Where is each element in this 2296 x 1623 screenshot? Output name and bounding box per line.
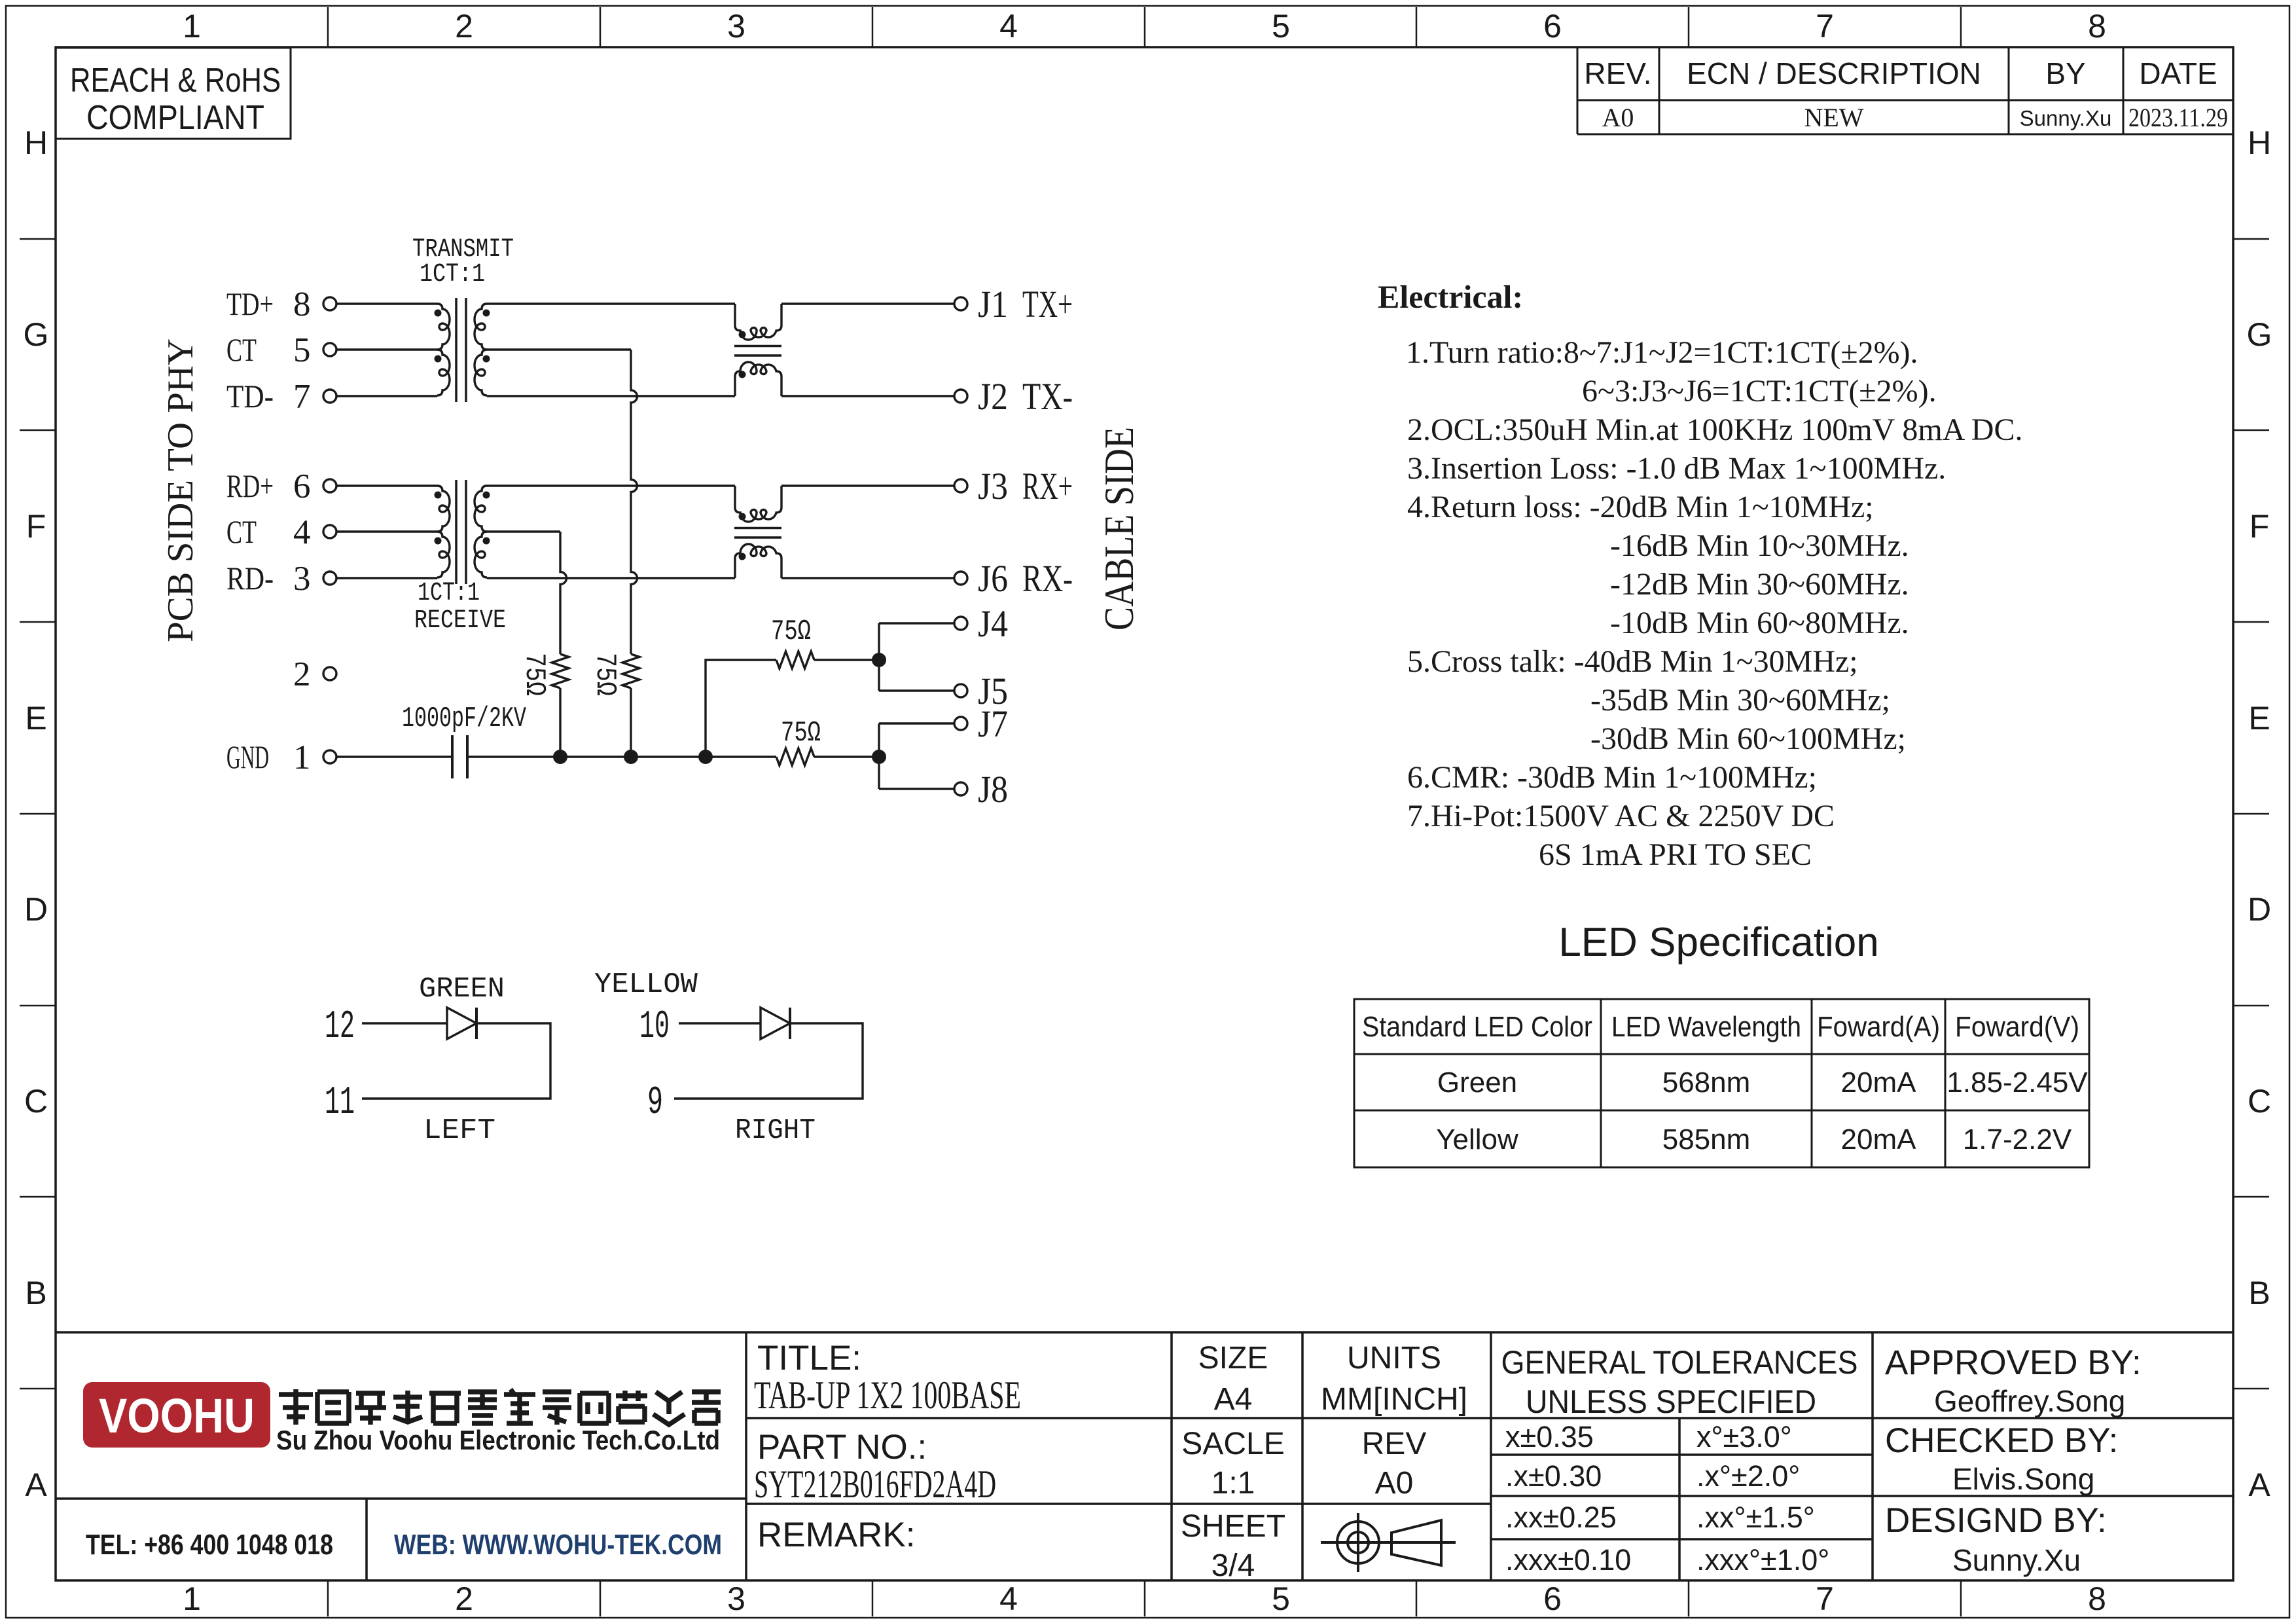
svg-text:UNITS: UNITS — [1347, 1341, 1441, 1376]
svg-text:Standard LED Color: Standard LED Color — [1362, 1011, 1592, 1043]
svg-text:A4: A4 — [1214, 1382, 1253, 1417]
capacitor C1 1000pF/2KV — [402, 702, 526, 778]
svg-text:3: 3 — [293, 560, 311, 598]
terminal J4 — [954, 602, 1008, 645]
svg-text:1.7-2.2V: 1.7-2.2V — [1963, 1123, 2072, 1156]
svg-text:6: 6 — [293, 467, 311, 505]
company name (CJK) Su Zhou Voohu Electronic Tech — [279, 1389, 721, 1425]
wire CMC L1 to J1 — [781, 302, 954, 304]
diode D2 — [761, 1008, 790, 1039]
svg-text:.xxx°±1.0°: .xxx°±1.0° — [1696, 1543, 1829, 1577]
svg-text:3: 3 — [727, 8, 745, 45]
wire pin4 to T2 CT — [336, 530, 437, 532]
svg-text:8: 8 — [2088, 8, 2106, 45]
svg-text:E: E — [25, 700, 46, 737]
wire node from T2 CT down to R1 (with crossover hop) — [560, 532, 567, 654]
svg-text:8: 8 — [2088, 1580, 2106, 1617]
svg-text:x±0.35: x±0.35 — [1505, 1420, 1594, 1453]
terminal J2 TX- — [954, 375, 1073, 418]
pin 2 terminal — [293, 655, 336, 693]
pin 3 (RD-) terminal — [226, 560, 336, 598]
resistor R2 75ohm (TX CT termination) — [588, 653, 639, 696]
svg-text:PCB SIDE TO PHY: PCB SIDE TO PHY — [160, 338, 201, 642]
svg-text:9: 9 — [647, 1081, 663, 1125]
svg-text:J7: J7 — [978, 702, 1008, 745]
svg-text:6: 6 — [1543, 1580, 1562, 1617]
svg-text:.xx±0.25: .xx±0.25 — [1505, 1501, 1617, 1534]
svg-text:-12dB Min 30~60MHz.: -12dB Min 30~60MHz. — [1610, 567, 1909, 602]
svg-text:DATE: DATE — [2139, 56, 2217, 90]
svg-text:BY: BY — [2045, 56, 2085, 90]
wire pin6 to T2 — [336, 484, 437, 486]
svg-text:Foward(A): Foward(A) — [1817, 1011, 1940, 1043]
svg-text:5: 5 — [1272, 8, 1290, 45]
svg-text:7: 7 — [293, 378, 311, 416]
wire R4 to node J78 — [814, 756, 879, 757]
svg-text:Sunny.Xu: Sunny.Xu — [1952, 1543, 2081, 1577]
LED D1 GREEN (LEFT) circuit — [325, 973, 550, 1147]
diode D1 — [447, 1008, 476, 1039]
wire pin5 to T1 CT — [336, 348, 437, 350]
border zone letters right — [2247, 124, 2272, 1503]
wire T2 secondary bottom to CMC L2 — [487, 577, 735, 579]
svg-text:-10dB Min 60~80MHz.: -10dB Min 60~80MHz. — [1610, 606, 1909, 640]
svg-text:7: 7 — [1816, 8, 1834, 45]
wire node from T1 CT down to R2 (with crossover hops) — [631, 350, 637, 654]
wire pin3 to T2 — [336, 577, 437, 579]
svg-text:J6: J6 — [978, 557, 1008, 600]
svg-text:SACLE: SACLE — [1181, 1427, 1284, 1461]
svg-text:4: 4 — [999, 8, 1018, 45]
wire D1 to pin11 — [362, 1023, 550, 1099]
wire GND pin1 to capacitor C1 — [336, 756, 452, 757]
svg-text:1: 1 — [183, 8, 201, 45]
svg-text:C: C — [2248, 1083, 2271, 1120]
electrical specification notes — [1378, 278, 2022, 872]
svg-text:20mA: 20mA — [1841, 1123, 1917, 1156]
wire GND node up to R3 branch — [706, 660, 776, 757]
svg-text:SHEET: SHEET — [1181, 1509, 1285, 1544]
svg-text:.x°±2.0°: .x°±2.0° — [1696, 1459, 1800, 1493]
svg-text:11: 11 — [325, 1081, 355, 1125]
title block grid — [56, 1332, 2233, 1580]
wire pin7 to T1 — [336, 395, 437, 397]
svg-text:REACH & RoHS: REACH & RoHS — [70, 62, 281, 100]
svg-text:G: G — [24, 316, 49, 353]
svg-text:8: 8 — [293, 285, 311, 323]
wire T1 secondary CT to node — [487, 348, 631, 350]
svg-text:RX-: RX- — [1022, 557, 1073, 600]
svg-text:F: F — [26, 508, 46, 545]
svg-text:LED Specification: LED Specification — [1558, 920, 1878, 965]
svg-text:NEW: NEW — [1804, 103, 1863, 132]
svg-text:YELLOW: YELLOW — [594, 968, 698, 1001]
transformer T1 TRANSMIT 1CT:1 — [412, 235, 514, 402]
svg-text:.x±0.30: .x±0.30 — [1505, 1459, 1602, 1493]
svg-text:TD-: TD- — [226, 378, 274, 414]
svg-text:H: H — [2248, 124, 2271, 161]
terminal J8 — [954, 768, 1008, 811]
resistor R3 75ohm (to J4/J5) — [771, 615, 814, 668]
wire node J45 branches to J4 and J5 — [879, 623, 954, 691]
svg-text:568nm: 568nm — [1662, 1067, 1751, 1099]
pin 7 (TD-) terminal — [226, 378, 336, 416]
svg-text:GND: GND — [226, 739, 269, 775]
border zone letters left — [24, 124, 49, 1503]
svg-text:WEB: WWW.WOHU-TEK.COM: WEB: WWW.WOHU-TEK.COM — [394, 1529, 722, 1561]
svg-text:20mA: 20mA — [1841, 1067, 1917, 1099]
pin 8 (TD+) terminal — [226, 285, 336, 323]
border zone numbers top — [183, 8, 2106, 45]
terminal J7 — [954, 702, 1008, 745]
svg-text:.xxx±0.10: .xxx±0.10 — [1505, 1543, 1631, 1577]
svg-text:VOOHU: VOOHU — [99, 1389, 255, 1443]
svg-text:J3: J3 — [978, 465, 1008, 507]
svg-text:Sunny.Xu: Sunny.Xu — [2020, 106, 2112, 130]
wire D2 to pin9 — [674, 1023, 863, 1099]
svg-text:1000pF/2KV: 1000pF/2KV — [402, 702, 526, 735]
svg-text:1:1: 1:1 — [1211, 1466, 1255, 1501]
svg-text:TX-: TX- — [1022, 375, 1073, 418]
svg-text:RD+: RD+ — [226, 467, 274, 504]
svg-text:MM[INCH]: MM[INCH] — [1321, 1382, 1467, 1417]
svg-text:Geoffrey.Song: Geoffrey.Song — [1934, 1384, 2125, 1418]
svg-text:3/4: 3/4 — [1211, 1548, 1255, 1583]
wire T2 secondary CT to node — [487, 530, 560, 532]
svg-text:B: B — [2248, 1275, 2270, 1311]
svg-text:2: 2 — [293, 655, 311, 693]
junction node dots — [553, 750, 567, 764]
svg-text:J8: J8 — [978, 768, 1008, 811]
LED specification table — [1354, 999, 2089, 1167]
border row ticks — [20, 238, 2269, 240]
svg-text:RX+: RX+ — [1022, 465, 1073, 507]
svg-text:2: 2 — [455, 8, 473, 45]
revision table — [1577, 47, 2233, 134]
wire pin8 to T1 — [336, 302, 437, 304]
svg-text:.xx°±1.5°: .xx°±1.5° — [1696, 1501, 1815, 1534]
svg-text:TX+: TX+ — [1022, 283, 1073, 325]
wire T1 secondary bottom to CMC L1 — [487, 395, 735, 397]
svg-text:TAB-UP 1X2 100BASE: TAB-UP 1X2 100BASE — [754, 1374, 1021, 1417]
svg-text:TD+: TD+ — [226, 285, 274, 322]
svg-text:A: A — [25, 1467, 47, 1503]
general tolerances block — [1501, 1344, 1858, 1577]
svg-text:-35dB Min 30~60MHz;: -35dB Min 30~60MHz; — [1590, 683, 1890, 718]
svg-text:Su Zhou Voohu Electronic Tech.: Su Zhou Voohu Electronic Tech.Co.Ltd — [276, 1425, 720, 1455]
svg-text:10: 10 — [639, 1005, 670, 1049]
svg-text:SYT212B016FD2A4D: SYT212B016FD2A4D — [754, 1463, 996, 1506]
svg-text:F: F — [2250, 508, 2270, 545]
third-angle projection symbol — [1321, 1513, 1456, 1572]
company logo VOOHU — [83, 1382, 270, 1448]
svg-text:G: G — [2247, 316, 2272, 353]
svg-text:A0: A0 — [1602, 103, 1634, 132]
svg-text:x°±3.0°: x°±3.0° — [1696, 1420, 1792, 1453]
svg-text:Electrical:: Electrical: — [1378, 278, 1523, 315]
svg-text:CABLE SIDE: CABLE SIDE — [1096, 427, 1142, 630]
svg-text:4.Return loss: -20dB Min 1~10M: 4.Return loss: -20dB Min 1~10MHz; — [1407, 490, 1874, 524]
wire T1 secondary top to CMC L1 — [487, 302, 735, 304]
svg-text:RECEIVE: RECEIVE — [414, 606, 506, 636]
svg-text:3: 3 — [727, 1580, 745, 1617]
svg-text:1: 1 — [293, 739, 311, 776]
svg-text:4: 4 — [999, 1580, 1018, 1617]
wire R1 to GND rail — [559, 688, 561, 757]
svg-text:REV.: REV. — [1584, 56, 1651, 90]
wire T2 secondary top to CMC L2 — [487, 484, 735, 486]
svg-text:COMPLIANT: COMPLIANT — [86, 99, 264, 137]
REACH & RoHS compliant box — [56, 48, 291, 139]
border column ticks — [327, 7, 329, 1616]
svg-text:GREEN: GREEN — [419, 973, 505, 1006]
svg-text:1CT:1: 1CT:1 — [420, 260, 485, 289]
svg-text:7.Hi-Pot:1500V AC & 2250V DC: 7.Hi-Pot:1500V AC & 2250V DC — [1407, 799, 1835, 833]
pin 4 (CT) terminal — [226, 513, 336, 551]
svg-text:ECN / DESCRIPTION: ECN / DESCRIPTION — [1687, 56, 1981, 90]
pin 6 (RD+) terminal — [226, 467, 336, 505]
wire GND rail — [467, 756, 776, 757]
svg-text:C: C — [24, 1083, 48, 1120]
svg-text:E: E — [2248, 700, 2270, 737]
svg-text:D: D — [2248, 891, 2271, 928]
svg-text:3.Insertion Loss: -1.0 dB Max: 3.Insertion Loss: -1.0 dB Max 1~100MHz. — [1407, 451, 1946, 486]
wire CMC L1 to J2 — [781, 395, 954, 397]
svg-text:A0: A0 — [1375, 1466, 1414, 1501]
svg-text:5: 5 — [293, 331, 311, 369]
terminal J3 RX+ — [954, 465, 1073, 507]
svg-text:6.CMR: -30dB Min 1~100MHz;: 6.CMR: -30dB Min 1~100MHz; — [1407, 760, 1817, 795]
svg-text:7: 7 — [1816, 1580, 1834, 1617]
wire pin12 to D1 — [362, 1022, 447, 1024]
LED D2 YELLOW (RIGHT) circuit — [594, 968, 863, 1147]
svg-text:75Ω: 75Ω — [588, 653, 621, 696]
svg-text:75Ω: 75Ω — [518, 653, 550, 696]
svg-text:REMARK:: REMARK: — [757, 1516, 915, 1554]
svg-text:-16dB Min 10~30MHz.: -16dB Min 10~30MHz. — [1610, 528, 1909, 563]
svg-text:2: 2 — [455, 1580, 473, 1617]
terminal J1 TX+ — [954, 283, 1073, 325]
svg-text:REV: REV — [1362, 1427, 1427, 1461]
resistor R1 75ohm (RX CT termination) — [518, 653, 569, 696]
svg-text:1CT:1: 1CT:1 — [418, 579, 480, 608]
svg-text:1.Turn ratio:8~7:J1~J2=1CT:1CT: 1.Turn ratio:8~7:J1~J2=1CT:1CT(±2%). — [1406, 335, 1918, 370]
svg-text:2.OCL:350uH Min.at 100KHz 100m: 2.OCL:350uH Min.at 100KHz 100mV 8mA DC. — [1407, 412, 2022, 447]
svg-text:TITLE:: TITLE: — [757, 1339, 861, 1377]
svg-text:APPROVED BY:: APPROVED BY: — [1885, 1343, 2142, 1382]
svg-text:PART NO.:: PART NO.: — [757, 1428, 927, 1467]
wire R2 to GND rail — [630, 688, 632, 757]
wire R3 to node J45 — [814, 659, 879, 661]
svg-text:CT: CT — [226, 513, 257, 550]
svg-text:5.Cross talk: -40dB Min 1~30MH: 5.Cross talk: -40dB Min 1~30MHz; — [1407, 644, 1858, 679]
wire CMC L2 to J6 — [781, 577, 954, 579]
svg-text:A: A — [2248, 1467, 2270, 1503]
svg-text:J2: J2 — [978, 375, 1008, 418]
svg-text:4: 4 — [293, 513, 311, 551]
svg-text:J1: J1 — [978, 283, 1008, 325]
svg-text:1: 1 — [183, 1580, 201, 1617]
svg-text:Elvis.Song: Elvis.Song — [1952, 1462, 2094, 1496]
svg-text:Green: Green — [1437, 1067, 1517, 1099]
wire pin10 to D2 — [679, 1022, 761, 1024]
svg-text:H: H — [24, 124, 48, 161]
svg-text:TEL: +86 400 1048 018: TEL: +86 400 1048 018 — [86, 1529, 333, 1561]
svg-text:D: D — [24, 891, 48, 928]
border zone numbers bottom — [183, 1580, 2106, 1617]
svg-text:-30dB Min 60~100MHz;: -30dB Min 60~100MHz; — [1590, 721, 1906, 756]
pin 5 (CT) terminal — [226, 331, 336, 369]
svg-text:6: 6 — [1543, 8, 1562, 45]
svg-text:2023.11.29: 2023.11.29 — [2128, 103, 2228, 132]
svg-text:SIZE: SIZE — [1198, 1341, 1268, 1376]
wire CMC L2 to J3 — [781, 484, 954, 486]
svg-text:5: 5 — [1272, 1580, 1290, 1617]
svg-text:Foward(V): Foward(V) — [1955, 1011, 2079, 1043]
common-mode choke L1 (TX) — [734, 304, 781, 396]
svg-text:CHECKED BY:: CHECKED BY: — [1885, 1421, 2118, 1460]
svg-text:6S 1mA PRI TO SEC: 6S 1mA PRI TO SEC — [1539, 837, 1812, 872]
svg-text:B: B — [25, 1275, 46, 1311]
svg-text:UNLESS SPECIFIED: UNLESS SPECIFIED — [1526, 1383, 1816, 1420]
svg-text:585nm: 585nm — [1662, 1123, 1751, 1156]
svg-text:12: 12 — [325, 1005, 355, 1049]
svg-text:RIGHT: RIGHT — [735, 1114, 816, 1147]
svg-text:RD-: RD- — [226, 560, 274, 596]
svg-text:DESIGND BY:: DESIGND BY: — [1885, 1501, 2107, 1540]
svg-text:CT: CT — [226, 331, 257, 368]
wire node J78 branches to J7 and J8 — [879, 723, 954, 789]
resistor R4 75ohm (to J7/J8) — [776, 717, 821, 765]
svg-text:Yellow: Yellow — [1436, 1123, 1518, 1156]
svg-text:75Ω: 75Ω — [781, 717, 821, 750]
svg-text:75Ω: 75Ω — [771, 615, 811, 648]
terminal J6 RX- — [954, 557, 1073, 600]
svg-text:GENERAL TOLERANCES: GENERAL TOLERANCES — [1501, 1344, 1858, 1381]
transformer T2 RECEIVE 1CT:1 — [414, 480, 506, 636]
svg-text:1.85-2.45V: 1.85-2.45V — [1946, 1067, 2088, 1099]
svg-text:J4: J4 — [978, 602, 1008, 645]
svg-text:6~3:J3~J6=1CT:1CT(±2%).: 6~3:J3~J6=1CT:1CT(±2%). — [1582, 374, 1937, 409]
terminal J5 — [954, 670, 1008, 712]
common-mode choke L2 (RX) — [734, 486, 781, 578]
pin 1 (GND) terminal — [226, 739, 336, 776]
svg-text:LED Wavelength: LED Wavelength — [1611, 1011, 1801, 1043]
svg-text:LEFT: LEFT — [423, 1114, 495, 1147]
